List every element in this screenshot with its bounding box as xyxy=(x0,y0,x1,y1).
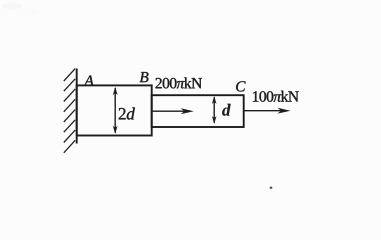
force label 200πkN xyxy=(156,77,202,88)
node label A xyxy=(84,76,94,86)
node label B xyxy=(140,72,149,82)
bar BC (small section, diameter d) xyxy=(152,95,244,127)
wall fixed-support line xyxy=(76,69,78,144)
node label C xyxy=(236,81,246,91)
wall hatching strokes xyxy=(64,69,75,153)
force arrow 200πkN applied at B xyxy=(153,108,194,114)
bar AB (large section, diameter 2d) xyxy=(77,85,152,135)
value label d xyxy=(222,104,231,116)
force arrow 100πkN applied at C xyxy=(244,108,291,114)
dimension arrow d (double-headed) xyxy=(212,96,217,124)
dimension arrow 2d (double-headed) xyxy=(113,87,118,134)
force label 100πkN xyxy=(253,91,299,102)
value label 2d xyxy=(119,107,135,119)
